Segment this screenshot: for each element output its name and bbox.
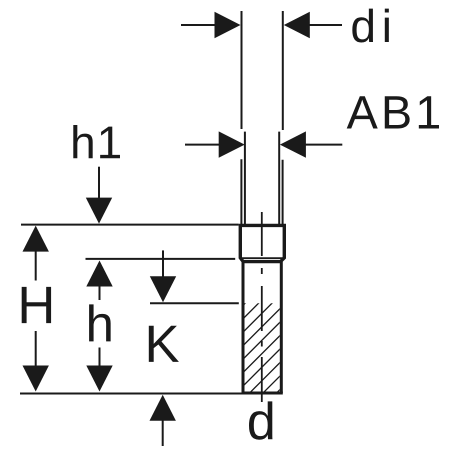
dimension AB1 right arrow <box>280 131 342 157</box>
dimension h top arrow <box>86 261 112 301</box>
label di <box>352 9 389 43</box>
dimension di right arrow <box>284 12 342 38</box>
socket outline <box>240 225 284 261</box>
body bottom edge <box>242 392 283 395</box>
pipe inner wall right <box>278 132 280 224</box>
top reference line (top of socket) <box>21 224 239 226</box>
pipe inner wall left <box>244 132 246 224</box>
dimension H bottom arrow <box>23 331 49 392</box>
h reference line (socket bottom) <box>86 258 236 260</box>
label H <box>22 287 51 323</box>
extension line right (di) <box>282 11 284 130</box>
extension line left (di) <box>241 11 243 129</box>
pipe outer wall right <box>282 160 284 224</box>
pipe outer wall left <box>240 159 242 224</box>
dimension K top arrow <box>150 250 176 302</box>
body wall left <box>242 262 245 393</box>
body wall right <box>280 262 283 393</box>
label K <box>149 326 179 362</box>
label AB1 <box>347 96 439 128</box>
dimension K bottom arrow <box>150 395 176 446</box>
hatching <box>148 290 379 400</box>
bottom reference line <box>20 393 243 395</box>
dimension H top arrow <box>23 226 49 281</box>
label h <box>89 304 111 341</box>
label h1 <box>73 125 120 158</box>
K reference line (insertion depth) <box>150 302 239 304</box>
dimension h bottom arrow <box>86 348 112 392</box>
dimension h1 arrow <box>86 167 112 224</box>
dimension di left arrow <box>181 12 241 38</box>
socket inner bottom line <box>242 257 283 259</box>
dimension AB1 left arrow <box>185 131 245 157</box>
label d <box>249 401 272 439</box>
centerline <box>261 212 263 402</box>
